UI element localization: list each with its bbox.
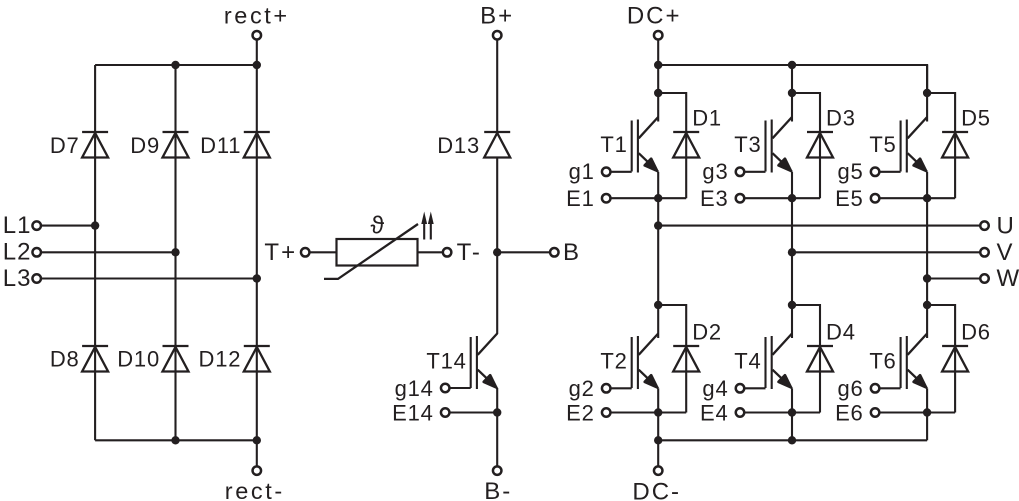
wire g5 lead xyxy=(880,171,901,173)
terminal L1 xyxy=(32,221,41,230)
wire output W xyxy=(927,277,984,279)
terminal DC- xyxy=(654,466,663,475)
wire diode branch D5 xyxy=(927,93,955,198)
diode D7 xyxy=(82,132,108,158)
wire emitter T6 down xyxy=(926,388,928,440)
wire DC+ stub xyxy=(657,39,659,65)
wire diode branch D3 xyxy=(792,93,820,198)
wire leg2 mid xyxy=(791,198,793,305)
terminal W xyxy=(980,274,989,283)
node DC+ bus leg2 xyxy=(788,61,796,69)
node top bus / D9 junction xyxy=(171,61,179,69)
terminal DC+ xyxy=(654,31,663,40)
node collector branch T5 xyxy=(923,89,931,97)
wire E3 lead xyxy=(745,197,820,199)
node emitter junction E6 xyxy=(923,408,931,416)
node collector branch T6 xyxy=(923,301,931,309)
wire rectifier bottom bus xyxy=(95,439,257,441)
wire L1 xyxy=(41,225,95,227)
node collector branch T1 xyxy=(654,89,662,97)
wire leg to collector T6 xyxy=(926,305,928,338)
wire E14 lead xyxy=(450,411,498,413)
wire g4 lead xyxy=(745,387,766,389)
node emitter junction E3 xyxy=(788,194,796,202)
wire L2 xyxy=(41,251,176,253)
diode D11 xyxy=(244,132,270,158)
svg-text:D9: D9 xyxy=(130,133,160,158)
svg-text:T4: T4 xyxy=(734,349,761,374)
wire D11/D12 column xyxy=(256,65,258,440)
wire diode branch D1 xyxy=(658,93,686,198)
wire D9/D10 column xyxy=(174,65,176,440)
transistor T6 xyxy=(901,334,928,390)
wire g6 lead xyxy=(880,387,901,389)
svg-text:D3: D3 xyxy=(826,106,856,131)
wire D13 to node xyxy=(496,158,498,253)
node collector branch T2 xyxy=(654,301,662,309)
svg-text:DC-: DC- xyxy=(632,479,681,501)
thermistor RT1 diagonal xyxy=(324,224,418,279)
node bottom bus / D10 junction xyxy=(171,436,179,444)
wire diode branch D4 xyxy=(792,305,820,413)
terminal L2 xyxy=(32,248,41,256)
svg-text:B: B xyxy=(563,239,580,266)
svg-text:L2: L2 xyxy=(3,239,32,266)
wire rect+ stub xyxy=(256,39,258,65)
wire B+ to D13 xyxy=(496,39,498,132)
node L3 junction xyxy=(253,274,261,282)
node L2 junction xyxy=(171,248,179,256)
wire B node to T14 collector xyxy=(496,252,498,334)
terminal E2 xyxy=(602,408,611,417)
wire emitter T4 down xyxy=(791,388,793,440)
wire DC- stub xyxy=(657,440,659,466)
svg-text:E14: E14 xyxy=(392,401,434,426)
terminal V xyxy=(980,248,989,256)
terminal T- xyxy=(443,248,452,256)
svg-text:E6: E6 xyxy=(835,401,864,426)
diode D4 xyxy=(807,346,833,372)
terminal rect+ xyxy=(253,31,262,40)
svg-text:g2: g2 xyxy=(569,376,595,401)
svg-text:T1: T1 xyxy=(600,132,627,157)
terminal rect- xyxy=(253,466,262,475)
wire leg to collector T3 xyxy=(791,65,793,122)
wire thermistor to T- xyxy=(418,251,444,253)
wire g3 lead xyxy=(745,171,766,173)
diode D2 xyxy=(673,346,699,372)
svg-text:rect+: rect+ xyxy=(224,3,290,29)
transistor T3 xyxy=(766,117,793,173)
wire leg to collector T2 xyxy=(657,305,659,338)
terminal E14 xyxy=(441,408,450,417)
terminal B- xyxy=(493,466,502,475)
terminal E6 xyxy=(871,408,880,417)
thermistor arrow 1 xyxy=(421,212,427,240)
svg-text:T+: T+ xyxy=(264,239,297,266)
wire E5 lead xyxy=(880,197,955,199)
node V junction xyxy=(788,248,796,256)
svg-text:g4: g4 xyxy=(702,376,728,401)
node DC+ bus leg1 xyxy=(654,61,662,69)
svg-text:T3: T3 xyxy=(734,132,761,157)
wire g2 lead xyxy=(611,387,632,389)
wire rectifier top bus xyxy=(95,64,257,66)
node T-/B junction xyxy=(493,248,501,256)
svg-text:T-: T- xyxy=(457,239,482,266)
wire T14 emitter to B- xyxy=(496,388,498,467)
svg-text:D8: D8 xyxy=(50,347,80,372)
svg-text:ϑ: ϑ xyxy=(370,212,384,240)
svg-text:D4: D4 xyxy=(826,320,856,345)
wire E4 lead xyxy=(745,411,820,413)
wire emitter T2 down xyxy=(657,388,659,440)
svg-text:g3: g3 xyxy=(702,159,728,184)
node emitter junction E5 xyxy=(923,194,931,202)
transistor T5 xyxy=(901,117,928,173)
terminal g3 xyxy=(736,168,745,177)
svg-text:D10: D10 xyxy=(117,347,160,372)
node collector branch T3 xyxy=(788,89,796,97)
terminal E1 xyxy=(602,194,611,203)
wire g14 lead xyxy=(450,387,471,389)
svg-text:E5: E5 xyxy=(835,186,864,211)
svg-text:D13: D13 xyxy=(437,133,480,158)
node E14 junction xyxy=(493,408,501,416)
thermistor RT1 body xyxy=(337,239,418,266)
diode D12 xyxy=(244,346,270,372)
node DC- bus leg2 xyxy=(788,436,796,444)
svg-text:rect-: rect- xyxy=(225,478,285,501)
svg-text:E4: E4 xyxy=(700,401,729,426)
wire diode branch D2 xyxy=(658,305,686,413)
svg-text:B+: B+ xyxy=(480,3,514,30)
svg-text:B-: B- xyxy=(484,478,512,501)
diode D9 xyxy=(163,132,189,158)
terminal g6 xyxy=(871,384,880,393)
transistor T2 xyxy=(632,334,659,390)
terminal E4 xyxy=(736,408,745,417)
svg-text:g1: g1 xyxy=(569,159,595,184)
diode D13 xyxy=(484,132,510,158)
wire T+ to thermistor xyxy=(309,251,336,253)
wire g1 lead xyxy=(611,171,632,173)
wire leg3 mid xyxy=(926,198,928,305)
node emitter junction E1 xyxy=(654,194,662,202)
wire E2 lead xyxy=(611,411,686,413)
wire leg1 mid xyxy=(657,198,659,305)
terminal g2 xyxy=(602,384,611,393)
node W junction xyxy=(923,274,931,282)
transistor T1 xyxy=(632,117,659,173)
terminal L3 xyxy=(32,274,41,283)
node emitter junction E2 xyxy=(654,408,662,416)
svg-text:g5: g5 xyxy=(838,159,864,184)
svg-text:DC+: DC+ xyxy=(627,3,682,30)
terminal B xyxy=(550,248,559,256)
diode D5 xyxy=(942,132,968,158)
terminal g1 xyxy=(602,168,611,177)
svg-text:W: W xyxy=(997,265,1019,292)
wire emitter T5 down xyxy=(926,172,928,198)
wire node to B xyxy=(497,251,550,253)
wire inverter DC- bus xyxy=(658,439,927,441)
node collector branch T4 xyxy=(788,301,796,309)
wire E1 lead xyxy=(611,197,686,199)
wire L3 xyxy=(41,277,257,279)
wire leg to collector T4 xyxy=(791,305,793,338)
node L1 junction xyxy=(91,221,99,229)
svg-text:T14: T14 xyxy=(426,349,466,374)
svg-text:T6: T6 xyxy=(869,349,896,374)
terminal E5 xyxy=(871,194,880,203)
node DC- bus leg1 xyxy=(654,436,662,444)
diode D10 xyxy=(163,346,189,372)
wire D7/D8 column xyxy=(94,65,96,440)
svg-text:E3: E3 xyxy=(700,186,729,211)
node rect+ bus junction xyxy=(253,61,261,69)
svg-text:D7: D7 xyxy=(50,133,80,158)
wire E6 lead xyxy=(880,411,955,413)
svg-text:E2: E2 xyxy=(566,401,595,426)
svg-text:V: V xyxy=(997,239,1014,266)
wire inverter DC+ bus xyxy=(658,65,927,93)
terminal T+ xyxy=(301,248,310,256)
terminal U xyxy=(980,221,989,230)
svg-text:D11: D11 xyxy=(200,133,241,158)
wire leg to collector T1 xyxy=(657,65,659,122)
svg-text:L3: L3 xyxy=(3,265,32,292)
svg-text:g14: g14 xyxy=(395,376,434,401)
svg-text:g6: g6 xyxy=(838,376,864,401)
diode D8 xyxy=(82,346,108,372)
node emitter junction E4 xyxy=(788,408,796,416)
svg-text:D2: D2 xyxy=(692,320,722,345)
terminal g14 xyxy=(441,384,450,393)
node U junction xyxy=(654,221,662,229)
svg-text:T5: T5 xyxy=(869,132,896,157)
svg-text:D6: D6 xyxy=(961,320,991,345)
terminal E3 xyxy=(736,194,745,203)
wire emitter T3 down xyxy=(791,172,793,198)
svg-text:D12: D12 xyxy=(199,347,242,372)
diode D1 xyxy=(673,132,699,158)
node rect- bus junction xyxy=(253,436,261,444)
wire output U xyxy=(658,225,984,227)
wire diode branch D6 xyxy=(927,305,955,413)
transistor T14 xyxy=(471,334,498,390)
svg-text:D1: D1 xyxy=(692,106,722,131)
svg-text:L1: L1 xyxy=(3,212,32,239)
wire emitter T1 down xyxy=(657,172,659,198)
wire leg to collector T5 xyxy=(926,65,928,122)
terminal g4 xyxy=(736,384,745,393)
terminal g5 xyxy=(871,168,880,177)
transistor T4 xyxy=(766,334,793,390)
wire rect- stub xyxy=(256,440,258,466)
svg-text:T2: T2 xyxy=(600,349,627,374)
diode D3 xyxy=(807,132,833,158)
thermistor arrow 2 xyxy=(428,212,434,240)
svg-text:U: U xyxy=(997,212,1015,239)
svg-text:E1: E1 xyxy=(566,186,595,211)
wire output V xyxy=(792,251,985,253)
terminal B+ xyxy=(493,31,502,40)
diode D6 xyxy=(942,346,968,372)
svg-text:D5: D5 xyxy=(961,106,991,131)
